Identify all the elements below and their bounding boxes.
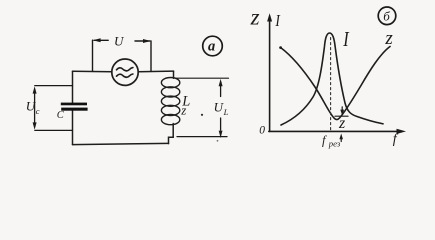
I resonance curve [281, 33, 383, 125]
svg-text:C: C [57, 110, 65, 121]
Uc dimension arrow line [34, 92, 36, 125]
wire: left vertical upper segment [72, 71, 74, 103]
wire: right vertical stub below coil with jog [169, 124, 174, 144]
UL dimension upper arrow line [220, 85, 222, 97]
node speck below UL [217, 140, 219, 142]
node speck near coil [201, 114, 203, 116]
frequency up arrow line [340, 137, 342, 142]
wire: top left segment [73, 70, 113, 73]
z impedance curve [281, 47, 391, 120]
svg-text:z: z [338, 115, 346, 132]
svg-text:L: L [223, 107, 229, 117]
frequency up arrowhead [339, 134, 343, 140]
ac source G circle [112, 59, 138, 85]
capacitor C top plate [61, 103, 87, 106]
ac source wave 2 [117, 74, 133, 77]
Uc dimension down arrowhead [33, 122, 37, 129]
svg-text:z: z [250, 5, 260, 30]
U dimension right stub [150, 41, 152, 71]
graph x axis [269, 130, 399, 132]
inductor L coil loop 5 [161, 115, 179, 125]
svg-text:I: I [342, 28, 349, 51]
UL dimension bottom tick [177, 136, 227, 138]
inductor L coil loop 2 [161, 87, 179, 97]
inductor L coil loop 3 [161, 96, 179, 106]
wire: left vertical lower segment [72, 111, 74, 145]
U dimension left arrowhead [93, 38, 101, 42]
inductor L coil loop 1 [161, 78, 179, 88]
dashed resonance line [330, 38, 332, 131]
U dimension left stub [92, 40, 94, 71]
Uc dimension up arrowhead [33, 86, 37, 93]
UL dimension top tick [176, 77, 229, 79]
graph y axis [269, 20, 271, 131]
U dimension right arrowhead [143, 39, 151, 43]
svg-text:б: б [383, 9, 390, 24]
UL dimension up arrowhead [219, 79, 223, 86]
wire: right vertical stub above coil [173, 71, 175, 78]
graph y axis arrowhead [267, 13, 272, 21]
svg-text:рез: рез [328, 138, 341, 148]
ac source wave 1 [117, 68, 133, 71]
UL dimension lower arrow line [220, 118, 222, 130]
svg-text:I: I [275, 12, 281, 31]
wire: top right segment [138, 70, 173, 73]
z curve start blob [279, 46, 282, 49]
capacitor C bottom plate [61, 108, 87, 111]
z minimum down arrow line [341, 107, 343, 112]
UL dimension down arrowhead [219, 131, 223, 138]
svg-text:f: f [322, 133, 327, 147]
svg-text:U: U [114, 34, 125, 49]
wire: bottom horizontal [73, 143, 169, 144]
label b circled: circle [378, 7, 396, 25]
Uc dimension top tick [35, 85, 73, 87]
svg-text:c: c [36, 106, 40, 116]
z minimum down arrowhead [340, 110, 344, 116]
z minimum level tick [335, 115, 348, 117]
svg-text:a: a [208, 39, 215, 55]
label a circled: circle [203, 36, 223, 56]
svg-text:f: f [393, 132, 399, 147]
Uc dimension bottom tick [35, 129, 73, 131]
graph x axis arrowhead [397, 129, 407, 134]
svg-text:0: 0 [259, 125, 265, 137]
U dimension right arrow line [135, 40, 150, 42]
svg-text:z: z [180, 102, 186, 117]
U dimension left arrow line [94, 39, 108, 41]
inductor L coil loop 4 [161, 105, 179, 115]
svg-text:z: z [384, 28, 393, 49]
